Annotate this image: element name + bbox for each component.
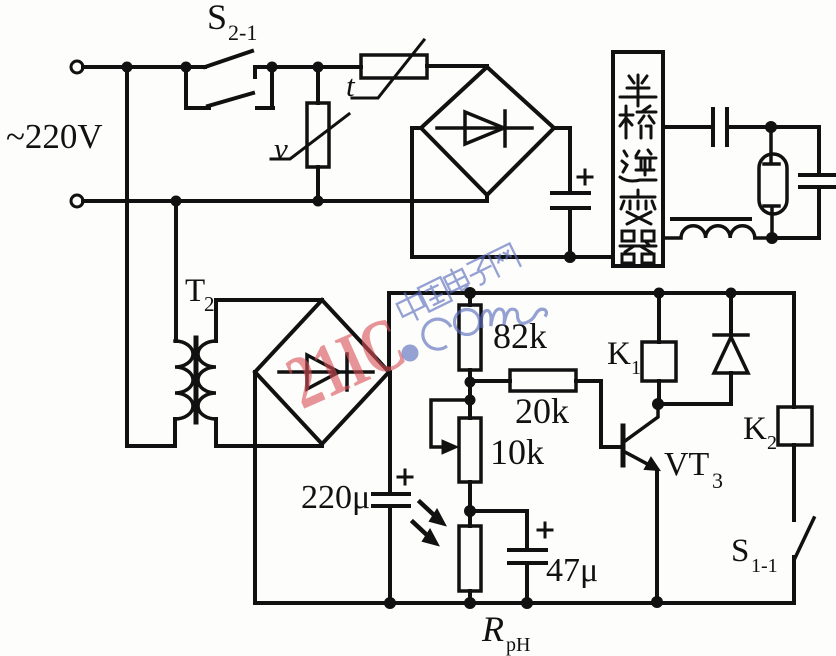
capacitor C5 47u plates (509, 550, 546, 563)
svg-text:1-1: 1-1 (751, 555, 778, 577)
char qi (620, 231, 656, 263)
junction dot lamp bottom (766, 232, 778, 244)
transistor VT3 emitter arrowhead (645, 458, 659, 470)
lamp tube EL (759, 154, 787, 214)
wire K1 bottom lead (657, 381, 661, 404)
wire 20k to base (576, 381, 621, 447)
svg-text:47μ: 47μ (546, 552, 598, 589)
light arrow 1 head (430, 510, 445, 525)
light arrow 2 (413, 522, 429, 537)
char ni (620, 150, 656, 181)
svg-text:T: T (185, 273, 205, 309)
wire top terminal branch down to primary (127, 67, 175, 446)
diode VD flyback lead top (729, 293, 733, 335)
wire RP bottom to node C (468, 482, 472, 526)
svg-text:220μ: 220μ (301, 479, 370, 516)
svg-text:10k: 10k (490, 432, 544, 472)
char zhong (394, 287, 429, 325)
terminal input top (71, 61, 83, 73)
bridge B2 diode cathode bar (345, 354, 349, 390)
thermistor t body (361, 55, 427, 78)
junction dots divider (465, 377, 476, 388)
svg-text:2: 2 (204, 292, 215, 316)
light arrow 1 (420, 502, 436, 517)
capacitor C5 plus (538, 523, 552, 537)
transformer T2 core (194, 338, 199, 422)
bridge rectifier B1 diamond (421, 67, 554, 195)
wire plus rail (389, 291, 794, 295)
switch S2-1 pole 1 (205, 51, 255, 77)
wire B2 right vertex up to plus rail (387, 293, 391, 372)
watermark .com blue script (423, 298, 548, 349)
capacitor C4 220u plates (373, 494, 409, 506)
relay K1 body (642, 342, 676, 381)
capacitor C4 plus (398, 470, 412, 484)
wire B2 right vertex down to C4 (388, 372, 392, 603)
lamp top electrode (764, 127, 779, 164)
wire R1 to pot RP (468, 370, 472, 418)
svg-text:20k: 20k (515, 391, 569, 431)
potentiometer RP wiper (431, 400, 470, 447)
svg-text:v: v (274, 131, 288, 166)
svg-text:t: t (346, 68, 356, 103)
potentiometer RP 10k body (459, 418, 481, 482)
char qiao (620, 106, 656, 138)
wire B1 right vertex down (554, 128, 570, 257)
inductor L1 core bar (672, 217, 750, 221)
svg-text:2: 2 (767, 432, 777, 454)
wire top AC line (83, 66, 487, 67)
terminal input bottom (71, 195, 83, 207)
varistor v arrow (271, 114, 349, 159)
wire secondary bottom to bridge B2 (216, 419, 322, 446)
bridge B1 diode triangle (465, 112, 504, 144)
wire B1 left vertex to bottom rail (412, 128, 421, 257)
lamp bottom electrode (764, 206, 779, 238)
char bian (621, 190, 655, 224)
transistor VT3 emitter (625, 452, 651, 466)
resistor R1 82k body (459, 305, 481, 370)
diode VD triangle (714, 337, 748, 373)
wire emitter down to ground rail (655, 470, 659, 602)
char dian (442, 264, 471, 295)
wire B1 bottom stem (485, 195, 489, 201)
junction dot collector node (652, 398, 664, 410)
wire node B to C3 (772, 236, 819, 240)
watermark 21IC red (275, 300, 417, 425)
svg-text:3: 3 (712, 468, 723, 493)
inverter box text 半桥逆变器 (620, 75, 656, 263)
char guo (418, 277, 452, 311)
capacitor C1 plates (552, 193, 589, 208)
switch S2-1 pole 2 (186, 67, 273, 108)
wire K1 top lead (657, 293, 661, 342)
junction dot lamp top (765, 121, 777, 133)
transistor VT3 base bar (621, 426, 626, 465)
bridge B1 diode line (437, 126, 532, 130)
char zi (465, 255, 497, 288)
wire bottom terminal branch to primary top (174, 201, 178, 341)
resistor R1 82k lead top (468, 293, 472, 305)
light arrow 2 head (423, 530, 438, 545)
diode VD lead bottom (659, 373, 731, 404)
svg-text:K: K (607, 336, 631, 372)
varistor v body (307, 103, 329, 167)
svg-text:~220V: ~220V (6, 117, 103, 156)
thermistor t arrow (352, 40, 424, 98)
capacitor C3 plates (800, 175, 836, 187)
potentiometer RP wiper arrowhead (442, 440, 458, 454)
diode VD cathode bar (714, 333, 748, 337)
junction dots plus rail (464, 287, 476, 299)
svg-text:2-1: 2-1 (228, 20, 257, 45)
junction dots top AC line (122, 62, 133, 73)
svg-text:R: R (481, 609, 504, 649)
bridge B1 diode cathode bar (503, 111, 507, 146)
svg-text:K: K (743, 411, 767, 447)
svg-text:VT: VT (664, 446, 710, 483)
varistor v leads (316, 67, 320, 201)
inverter box (613, 52, 663, 266)
transistor VT3 collector (625, 404, 658, 441)
junction dot DC rail (564, 251, 576, 263)
photoresistor RpH body (459, 526, 481, 591)
wire node C to C5 (470, 511, 527, 550)
resistor R2 20k body (510, 370, 576, 391)
switch S1-1 bottom lead (792, 557, 796, 603)
wire K2 bottom lead (792, 445, 796, 520)
junction dots ground rail (384, 597, 396, 609)
wire B2 left vertex down to ground rail (253, 372, 257, 603)
char wang (488, 243, 521, 277)
capacitor C1 plus (578, 170, 592, 184)
inductor L1 winding (663, 226, 772, 238)
capacitor C2 coupling plates (713, 109, 727, 145)
watermark zhongguo dianziwang blue (393, 241, 522, 326)
wire C5 bottom (525, 563, 529, 603)
wire C2 to node A (727, 127, 819, 174)
wire bottom AC line (83, 199, 485, 203)
svg-text:S: S (207, 0, 227, 37)
wire secondary top to bridge B2 (216, 300, 322, 341)
char ban (620, 75, 656, 106)
wire DC bottom rail to inverter (412, 255, 613, 259)
svg-text:1: 1 (631, 357, 641, 379)
transformer T2 secondary winding (198, 341, 216, 419)
bridge B2 diode triangle (307, 355, 339, 389)
bridge B2 diode line (279, 370, 373, 374)
wire C3 down to node B (772, 187, 819, 238)
wire 20k branch (470, 379, 510, 383)
wire ground rail (255, 601, 794, 605)
bridge rectifier B2 diamond (255, 300, 389, 444)
wire K2 top lead (792, 293, 796, 407)
junction dots bottom AC line (171, 196, 182, 207)
switch S1-1 blade (795, 518, 814, 558)
svg-text:S: S (731, 533, 749, 569)
transformer T2 primary winding (175, 341, 193, 419)
relay K2 body (778, 407, 812, 445)
svg-text:pH: pH (506, 634, 530, 656)
watermark dot blue (402, 345, 419, 362)
wire RpH bottom (468, 591, 472, 603)
wire inverter top output (663, 125, 712, 129)
